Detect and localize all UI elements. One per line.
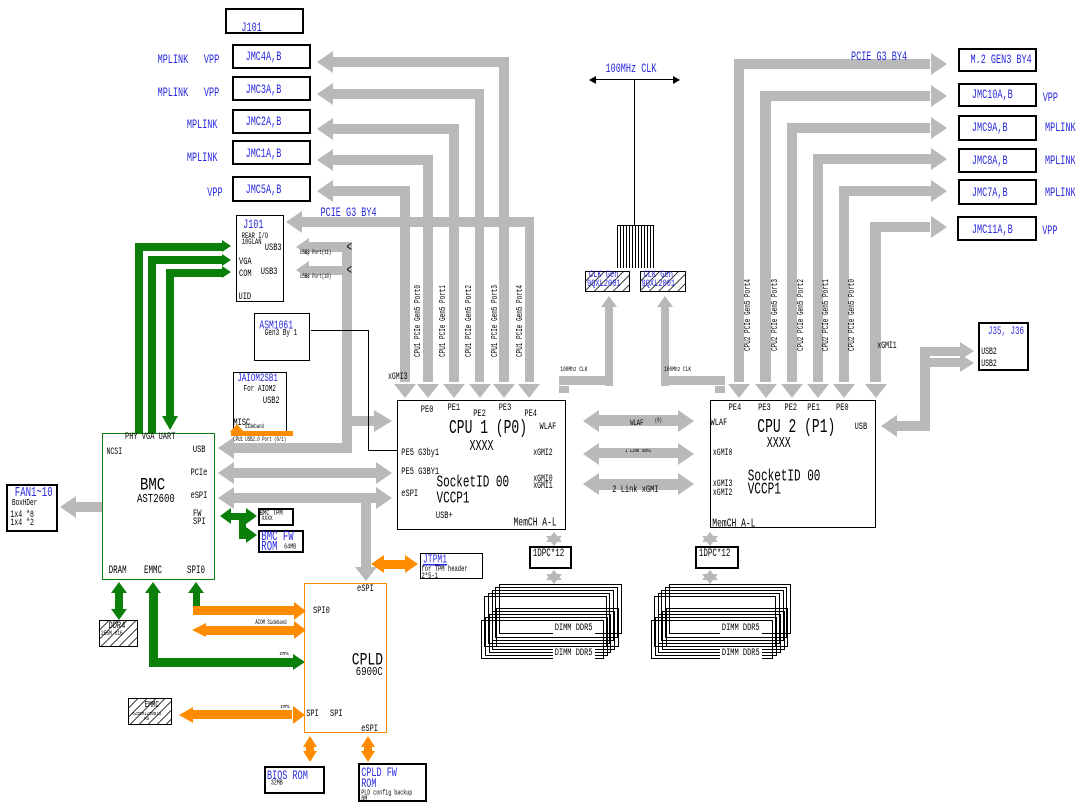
node chevron (11) xyxy=(347,242,352,256)
bus label CPU1 PCIe Gen5 Port1 xyxy=(439,285,448,357)
wire CPU1 MemCH to 1DPC (double) xyxy=(546,532,562,542)
label DIMM DDR5 (right upper) xyxy=(720,624,762,635)
bus label CPU1 PCIe Gen5 Port0 xyxy=(414,285,423,357)
connector 1DPC*12 (right) xyxy=(695,546,739,569)
label xGMI3 xyxy=(388,373,408,383)
label DIMM DDR5 (left upper) xyxy=(553,624,595,635)
cpu CPU 2 (P1) xyxy=(710,400,877,528)
bus label CPU1 PCIe Gen5 Port3 xyxy=(491,285,500,357)
connector JAIOM2SB1 xyxy=(233,372,287,432)
wire BMC FW SPI to TPM/ROM (green) xyxy=(220,508,231,524)
memory DIMM DDR5 stack L-lower card 4 xyxy=(485,617,608,656)
wire CPU1 Port4 bus to J101 PCIE G3 BY4 xyxy=(286,211,302,233)
chip ASM1061 xyxy=(254,313,310,361)
label xGMI1 xyxy=(877,342,897,352)
connector JMC10A,B xyxy=(958,83,1037,107)
wire Sideband (orange) xyxy=(230,424,244,432)
memory DIMM DDR5 stack R-upper card 2 xyxy=(665,587,788,637)
memory DIMM DDR5 stack R-lower card 1 xyxy=(666,608,789,647)
connector J101 (top box) xyxy=(225,8,305,35)
chip BMC AST2600 xyxy=(102,433,215,581)
label MPLINK (JMC7) xyxy=(1045,187,1076,200)
memory DIMM DDR5 stack L-lower card 2 xyxy=(492,611,615,650)
chip BMC TPM xyxy=(258,508,294,526)
bus label CPU2 PCIe Gen5 Port4 xyxy=(744,279,753,351)
wire USB3 Port(10) arrow to J101 xyxy=(296,261,309,279)
wire CPU2 bus to JMC8 (elbow) xyxy=(813,154,931,164)
wire CPU1 bus to JMC4 (elbow) xyxy=(317,51,333,73)
label DIMM DDR5 (right lower) xyxy=(720,649,762,660)
bus label CPU2 PCIe Gen5 Port1 xyxy=(822,279,831,351)
connector JMC9A,B xyxy=(958,115,1037,141)
memory DIMM DDR5 stack L-upper card 3 xyxy=(492,590,615,640)
wire CPU2 bus to JMC11 (elbow) xyxy=(870,222,930,232)
connector JMC4A,B xyxy=(232,44,312,69)
memory DIMM DDR5 stack R-lower card 4 xyxy=(655,617,778,656)
wire BMC to J101 10GLAN (green) xyxy=(135,243,143,433)
memory DIMM DDR5 stack L-lower card 3 xyxy=(489,614,612,653)
memory DIMM DDR5 stack R-upper card 1 xyxy=(669,584,792,634)
wire 1 LINK XGMI between CPUs xyxy=(583,443,599,465)
wire 1DPC to DIMM (left, double) xyxy=(546,570,562,580)
wire BMC EMMC to CPLD (green) xyxy=(145,582,161,593)
connector JMC11A,B xyxy=(957,216,1036,241)
wire CPU1 bus to JMC5 (elbow) xyxy=(317,180,333,202)
memory DIMM DDR5 stack R-upper card 5 xyxy=(654,596,777,646)
connector JMC2A,B xyxy=(232,109,312,134)
memory DIMM DDR5 stack L-upper card 2 xyxy=(495,587,618,637)
wire EMMC to CPLD SPI (orange, double) xyxy=(179,707,193,723)
wire BMC to FAN header xyxy=(60,496,76,518)
memory DIMM DDR5 stack L-upper card 4 xyxy=(488,593,611,643)
clock CLK Gen 9QXL2001 (right) xyxy=(640,271,686,293)
label PCIE G3 BY4 (right) xyxy=(851,51,907,64)
connector JMC3A,B xyxy=(232,76,312,101)
memory DIMM DDR5 stack R-upper card 4 xyxy=(658,593,781,643)
wire USB3 Port(11) arrow to J101 xyxy=(296,238,309,256)
clock CLK Gen 9QXL2001 (left) xyxy=(585,271,630,293)
wire eSPI drop to CPLD xyxy=(361,503,371,567)
connector JMC8A,B xyxy=(958,148,1037,174)
wire BMC eSPI to CPU1 eSPI xyxy=(218,487,234,509)
label MPLINK (JMC2) xyxy=(187,119,218,132)
label MPLINK VPP (JMC4) xyxy=(158,54,189,67)
bus label CPU2 PCIe Gen5 Port2 xyxy=(797,279,806,351)
connector 1DPC*12 (left) xyxy=(529,546,572,569)
connector JMC5A,B xyxy=(232,176,312,202)
wire CPU2 bus to M.2 (elbow) xyxy=(734,59,931,69)
label PCIE G3 BY4 (left) xyxy=(321,207,377,220)
label MPLINK VPP (JMC3) xyxy=(158,87,189,100)
memory DIMM DDR5 stack L-lower card 5 xyxy=(481,620,604,659)
memory DIMM DDR5 stack L-upper card 5 xyxy=(484,596,607,646)
connector JTPM1 xyxy=(420,553,483,579)
wire CPLD SPI to BIOS ROM (orange, double) xyxy=(303,736,317,747)
wire CPU2 bus to JMC9 (elbow) xyxy=(787,123,931,133)
memory DIMM DDR5 stack L-upper card 1 xyxy=(499,584,622,634)
memory DIMM DDR5 stack R-lower card 5 xyxy=(651,620,774,659)
bus label CPU1 PCIe Gen5 Port4 xyxy=(516,285,525,357)
wire USB3 vertical bus xyxy=(342,242,352,452)
memory EMMC xyxy=(128,698,173,725)
wire BMC DRAM to DDR4 (green) xyxy=(111,582,127,593)
node chevron (10) xyxy=(347,265,352,279)
wire ASM1061 to CPU1 PE5 G3by1 xyxy=(311,330,368,331)
cpu CPU 1 (P0) xyxy=(397,400,566,529)
chip CPLD 6900C xyxy=(304,583,387,733)
wire CPLD to JTPM1 (orange, double) xyxy=(371,555,384,573)
wire CLK fanout comb xyxy=(617,225,654,226)
label MPLINK (JMC1) xyxy=(187,152,218,165)
wire 1DPC to DIMM (right, double) xyxy=(702,570,718,580)
wire CPU1 bus to JMC1 (elbow) xyxy=(317,149,333,171)
wire CPU2 MemCH to 1DPC (double) xyxy=(702,532,718,542)
wire BMC to J101 COM (green) xyxy=(166,269,174,417)
label 100MHz CLK xyxy=(606,63,657,76)
connector J35, J36 xyxy=(978,322,1030,371)
label VPP (JMC11) xyxy=(1042,225,1057,238)
bus label CPU1 PCIe Gen5 Port2 xyxy=(465,285,474,357)
connector JMC1A,B xyxy=(232,140,312,165)
chip BMC FW ROM xyxy=(258,530,304,553)
connector FAN1~10 xyxy=(6,484,59,532)
memory DIMM DDR5 stack R-lower card 3 xyxy=(658,614,781,653)
wire CPU1 bus to JMC2 (elbow) xyxy=(317,118,333,140)
wire BMC PCIe to CPU1 PE5 G3BY1 xyxy=(218,462,234,484)
memory DIMM DDR5 stack R-upper card 3 xyxy=(661,590,784,640)
wire CLK vertical line xyxy=(634,79,635,225)
wire 2 Link xGMI between CPUs xyxy=(583,473,599,495)
connector JMC7A,B xyxy=(958,179,1037,205)
connector J101 rear I/O xyxy=(236,215,284,302)
wire USB3 bus branch to CPU1 xyxy=(352,416,376,426)
wire CPU2 bus to JMC10 (elbow) xyxy=(760,91,930,101)
label DIMM DDR5 (left lower) xyxy=(553,649,595,660)
wire CPU1 USB2.0 to BMC USB xyxy=(233,438,286,444)
wire WLAF link between CPUs xyxy=(583,410,599,432)
label MPLINK (JMC8) xyxy=(1045,155,1076,168)
memory DIMM DDR5 stack L-lower card 1 xyxy=(496,608,619,647)
label VPP (JMC5) xyxy=(207,187,222,200)
bus label CPU2 PCIe Gen5 Port0 xyxy=(848,279,857,351)
wire CPU2 USB to J35/J36 xyxy=(881,415,897,437)
wire CLK left to CPU1 xyxy=(601,296,617,307)
chip BIOS ROM xyxy=(264,766,325,794)
wire BMC to J101 VGA (green) xyxy=(148,256,156,433)
wire AIOM Sideband (orange, double) xyxy=(192,623,206,637)
connector M.2 GEN3 BY4 xyxy=(958,48,1037,72)
bus label CPU2 PCIe Gen5 Port3 xyxy=(771,279,780,351)
wire 100MHz CLK span arrow xyxy=(592,79,677,80)
memory DIMM DDR5 stack R-lower card 2 xyxy=(662,611,785,650)
wire CLK right to CPU2 xyxy=(657,296,673,307)
memory DDR4 xyxy=(99,620,138,647)
label MPLINK (JMC9) xyxy=(1045,122,1076,135)
wire CPLD eSPI to CPLD FW ROM (orange, double) xyxy=(361,736,375,747)
chip CPLD FW ROM xyxy=(358,763,427,802)
label VPP (JMC10) xyxy=(1043,92,1058,105)
wire CPU1 bus to JMC3 (elbow) xyxy=(317,83,333,105)
wire BMC SPI0 to CPLD SPI0 (green/orange) xyxy=(188,582,204,593)
wire CPU2 bus to JMC7 (elbow) xyxy=(839,186,931,196)
